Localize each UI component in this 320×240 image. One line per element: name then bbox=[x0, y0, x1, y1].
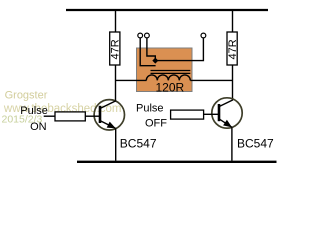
relay terminal A bbox=[138, 33, 143, 38]
svg-text:47R: 47R bbox=[110, 39, 122, 59]
Q1 emitter stroke bbox=[101, 121, 116, 128]
contact pole diamond bbox=[152, 58, 158, 64]
bottom 0V rail bbox=[77, 161, 277, 163]
relay coil winding bbox=[146, 75, 190, 81]
relay terminal C bbox=[201, 33, 206, 38]
transistor Q1 circle bbox=[94, 100, 124, 130]
svg-text:47R: 47R bbox=[227, 39, 239, 59]
Q1 emitter arrow bbox=[107, 122, 116, 129]
svg-text:Pulse: Pulse bbox=[20, 105, 48, 117]
wire: Q2 emitter to rail bbox=[231, 127, 233, 160]
wire: R4 to Q2 base bbox=[204, 113, 218, 115]
Q2 emitter stroke bbox=[220, 119, 232, 127]
relay K1 body bbox=[137, 48, 193, 92]
wire: R2 to Q2 collector bbox=[232, 65, 234, 100]
wire: Q1 emitter to rail bbox=[115, 128, 117, 160]
resistor R1 47R body bbox=[110, 32, 120, 65]
top supply rail bbox=[66, 9, 268, 11]
wire: terminal A to NO contact bbox=[140, 38, 155, 66]
resistor R4 body bbox=[171, 110, 204, 119]
wire: coil right lead bbox=[190, 79, 232, 81]
wire: rail to R2 bbox=[232, 10, 234, 33]
svg-text:OFF: OFF bbox=[145, 118, 167, 130]
wire: R1 to Q1 collector bbox=[115, 65, 117, 101]
svg-text:120R: 120R bbox=[156, 80, 185, 94]
relay core bar upper bbox=[151, 70, 191, 72]
relay terminal B bbox=[145, 33, 150, 38]
svg-text:BC547: BC547 bbox=[237, 137, 274, 151]
Q2 base bar bbox=[218, 104, 221, 121]
wire: rail to R1 bbox=[115, 10, 117, 33]
resistor R2 47R body bbox=[227, 32, 237, 65]
svg-text:Grogster: Grogster bbox=[5, 90, 48, 102]
svg-text:Pulse: Pulse bbox=[136, 103, 164, 115]
Q1 base bar bbox=[99, 106, 102, 123]
svg-text:ON: ON bbox=[30, 121, 47, 133]
wire: pole to terminal C bbox=[158, 38, 204, 61]
wire: coil left lead bbox=[116, 79, 147, 81]
wire: R3 to Q1 base bbox=[85, 115, 99, 117]
transistor Q2 circle bbox=[212, 98, 242, 128]
resistor R3 body bbox=[55, 112, 85, 121]
Q1 collector stroke bbox=[101, 101, 117, 109]
wire: Pulse ON input bbox=[44, 115, 55, 117]
svg-text:BC547: BC547 bbox=[120, 137, 157, 151]
relay core bar lower bbox=[151, 72, 191, 74]
Q2 collector stroke bbox=[220, 100, 233, 107]
wire: terminal B to pole bbox=[147, 38, 155, 59]
Q2 emitter arrow bbox=[223, 120, 232, 128]
